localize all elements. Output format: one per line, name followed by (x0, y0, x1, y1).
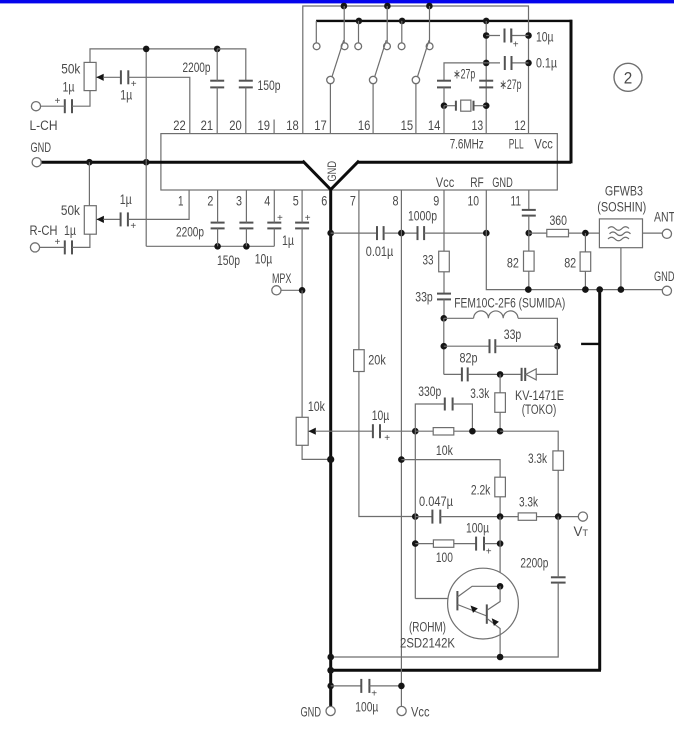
wire cap to R pot bottom (72, 234, 90, 247)
wire 3.3k to VT node (537, 516, 579, 518)
resistor 82 right (580, 252, 591, 271)
capacitor 10u wiper (373, 424, 380, 438)
junction dot MPX node (299, 287, 306, 294)
MPX terminal (272, 286, 281, 295)
wire pin5 to cap (301, 190, 303, 223)
wire collector rail down (499, 517, 501, 587)
capacitor 2200p output (551, 577, 566, 582)
svg-text:21: 21 (201, 118, 214, 133)
svg-text:+: + (130, 221, 136, 232)
GND terminal bottom (326, 706, 335, 715)
ANT terminal (662, 229, 671, 238)
junction dot pot bottom GND (327, 456, 334, 463)
svg-text:Vcc: Vcc (534, 137, 553, 152)
svg-text:9: 9 (433, 194, 439, 209)
junction dot 33p left (441, 343, 448, 350)
wire 2200p to pin21 (216, 87, 218, 133)
svg-text:0.01µ: 0.01µ (366, 244, 394, 259)
svg-text:50k: 50k (61, 61, 80, 76)
junction dot tank top (441, 315, 448, 322)
thick GND top bus (316, 20, 572, 22)
resistor 10k feedback (433, 428, 454, 435)
svg-text:+: + (486, 547, 492, 558)
switch S2 contact b stub (386, 6, 388, 43)
svg-text:20k: 20k (368, 353, 386, 368)
capacitor 0.1u decoupling (500, 56, 512, 70)
junction dot Vcc line sw3 (426, 3, 433, 10)
switch S3 pole (412, 76, 419, 83)
svg-text:RF: RF (470, 175, 484, 190)
wire MPX to node (281, 289, 302, 291)
filter GFWB3 body (599, 219, 642, 248)
capacitor 2200p pin2 (211, 223, 225, 229)
svg-text:7: 7 (350, 194, 356, 209)
svg-text:ANT: ANT (654, 210, 674, 225)
svg-text:7.6MHz: 7.6MHz (450, 137, 484, 152)
pin8 Vcc vertical full (400, 190, 402, 707)
potentiometer 50k R body (84, 206, 96, 235)
switch S1 contact b (341, 43, 348, 50)
svg-text:17: 17 (314, 118, 327, 133)
potentiometer 50k L body (84, 62, 96, 90)
switch S3 contact b (426, 43, 433, 50)
ground rail vertical x146 lower (145, 162, 147, 246)
crystal X1 leads (444, 105, 486, 107)
svg-text:0.047µ: 0.047µ (419, 494, 453, 509)
junction dot cap3 bottom (243, 243, 250, 250)
svg-text:3.3k: 3.3k (470, 386, 489, 401)
pin9 wire to 33 resistor (443, 190, 445, 251)
capacitor 82p (462, 367, 468, 381)
svg-text:50k: 50k (61, 203, 80, 218)
switch S2 contact a stub (358, 21, 360, 43)
R pot wiper arrow (96, 216, 104, 223)
switch S1 lever (332, 40, 344, 76)
switch S3 lever (418, 40, 430, 76)
svg-text:+: + (384, 433, 390, 444)
junction dot rail crystal (483, 102, 490, 109)
junction dot crystal left (441, 102, 448, 109)
wire R wiper to cap (103, 218, 120, 220)
wire MPX node down to 10k pot (301, 290, 303, 417)
wire 0.047u line left (415, 516, 432, 518)
capacitor 150p pin20 (239, 81, 253, 88)
junction dot pin11 rail (526, 230, 533, 237)
Q1 emitter lead (457, 605, 486, 617)
junction dot pin12 0.1u (525, 60, 532, 67)
potentiometer 10k body (296, 417, 308, 445)
Q2 base bar (486, 604, 488, 623)
capacitor 1u L wiper (121, 70, 128, 84)
resistor 3.3k emitter (518, 513, 536, 520)
switch S3 contact a stub (401, 21, 403, 43)
pin 19 stub (273, 120, 275, 134)
svg-text:L-CH: L-CH (30, 118, 58, 133)
junction dot cap2 bottom (214, 243, 221, 250)
junction dot emitter GND (327, 654, 334, 661)
svg-text:2200p: 2200p (176, 225, 204, 240)
svg-text:2200p: 2200p (183, 60, 211, 75)
varactor triangle (526, 369, 536, 380)
resistor 2.2k (495, 477, 506, 497)
junction dot rail x146 (143, 46, 150, 53)
blue top border bar (0, 0, 674, 3)
capacitor *27p right (479, 81, 493, 88)
pin11 wire to coupling cap (528, 190, 530, 210)
svg-text:+: + (513, 40, 519, 51)
junction dot 360 filter (582, 230, 589, 237)
junction dot collector rail 100u (497, 540, 504, 547)
wire 82L top (528, 233, 530, 251)
junction dot GND line filter (618, 286, 625, 293)
capacitor 10u decoupling (500, 29, 511, 43)
junction dot pin12 10u (525, 32, 532, 39)
svg-text:100: 100 (436, 550, 453, 565)
resistor 3.3k varactor bias (495, 393, 506, 413)
wire main rail pin6 to 0.01u (331, 232, 377, 234)
thick GND bottom bus (329, 669, 601, 672)
wire 82R bottom (584, 271, 586, 289)
svg-text:GND: GND (654, 269, 674, 284)
tank left rail (443, 318, 445, 374)
svg-text:3.3k: 3.3k (519, 495, 538, 510)
wire VT node to 2200p (557, 517, 559, 578)
svg-text:10µ: 10µ (255, 252, 273, 267)
capacitor 33p tank (490, 339, 496, 353)
wire S2 pole to pin16 (372, 84, 374, 134)
capacitor *27p left (437, 81, 451, 88)
wire 0.01u to 1000p (384, 232, 418, 234)
resistor 360 (547, 229, 569, 236)
capacitor 33p pin9 (437, 294, 451, 300)
svg-text:10: 10 (468, 194, 480, 209)
svg-text:8: 8 (393, 194, 399, 209)
svg-text:360: 360 (549, 213, 567, 228)
junction dot pin10 rail (483, 230, 490, 237)
svg-text:15: 15 (401, 118, 414, 133)
svg-text:GND: GND (492, 175, 513, 190)
svg-text:33p: 33p (415, 290, 433, 305)
junction dot rail 10u (483, 32, 490, 39)
svg-text:1µ: 1µ (64, 223, 76, 238)
svg-text:10k: 10k (308, 399, 325, 414)
junction dot pin6 rail (327, 230, 334, 237)
capacitor 100u bottom (361, 679, 369, 693)
svg-text:PLL: PLL (509, 137, 524, 152)
svg-text:GND: GND (301, 705, 322, 720)
wire pin8 node to 2.2k (401, 460, 500, 478)
wire 100u to collector rail (484, 543, 500, 545)
wire R-CH terminal to cap (40, 246, 65, 248)
svg-text:1000p: 1000p (408, 209, 437, 224)
svg-text:6: 6 (321, 194, 327, 209)
svg-text:GND: GND (31, 140, 52, 155)
GND terminal right (662, 286, 671, 295)
wire varactor to right rail (536, 346, 557, 374)
svg-text:19: 19 (258, 118, 271, 133)
switch S3 contact a (398, 43, 405, 50)
thick GND bus right section (358, 161, 571, 164)
junction dot thick bus sw2 (356, 18, 363, 25)
wire 100 to 100u (454, 543, 476, 545)
svg-text:∗27p: ∗27p (453, 67, 475, 82)
wire 82p to varactor node (468, 373, 522, 375)
svg-text:+: + (131, 79, 137, 90)
svg-text:0.1µ: 0.1µ (536, 56, 557, 71)
svg-text:1µ: 1µ (120, 192, 132, 207)
VT terminal (578, 512, 587, 521)
capacitor 2200p pin21 (210, 81, 224, 88)
svg-text:82: 82 (507, 255, 519, 270)
svg-text:(TOKO): (TOKO) (522, 402, 557, 417)
junction dot emitter node (497, 654, 504, 661)
wire L pot top to rail (90, 49, 146, 63)
wire filter bottom pin (620, 248, 622, 290)
wire S1 pole to pin17 (329, 84, 331, 134)
svg-text:1: 1 (178, 194, 184, 209)
wire 10u row (486, 35, 528, 37)
330p loop (415, 404, 445, 431)
wire 1000p to pin10 node (424, 232, 486, 234)
wire L wiper line to pin22 (103, 76, 121, 78)
capacitor 100u (476, 537, 484, 551)
switch S2 contact a (355, 43, 362, 50)
thick GND rail pin6 down (329, 188, 332, 707)
svg-text:KV-1471E: KV-1471E (515, 388, 564, 403)
capacitor 10u pin4 (267, 223, 281, 229)
junction dot thick bus sw3 (399, 18, 406, 25)
junction dot pin8 rail (398, 230, 405, 237)
IC U1 body (161, 134, 557, 190)
junction dot GND line 82R (582, 286, 589, 293)
junction dot 100 line left (412, 540, 419, 547)
svg-text:11: 11 (511, 194, 522, 209)
wire 150p to pin20 (245, 87, 247, 133)
junction dot pin8 2.2k (398, 456, 405, 463)
Q1 emitter arrow (471, 606, 478, 613)
wire 33p row left (444, 345, 490, 347)
svg-text:∗27p: ∗27p (500, 77, 522, 92)
capacitor 330p (445, 398, 453, 411)
resistor 33 (439, 251, 450, 272)
wire cap5 to MPX node (301, 228, 303, 290)
Q2 emitter arrow (492, 618, 499, 626)
wire wiper to 10u cap (315, 430, 373, 432)
top rail to 2200p (146, 48, 217, 50)
junction dot 100u Vcc (398, 683, 405, 690)
svg-text:3.3k: 3.3k (528, 451, 547, 466)
wire 20k down to 0.047u line (359, 372, 415, 517)
junction dot 33p right (554, 343, 561, 350)
wire L-CH terminal to cap (41, 105, 65, 107)
resistor 3.3k mid (553, 451, 564, 470)
capacitor 1000p (418, 226, 425, 240)
svg-text:MPX: MPX (272, 271, 292, 286)
wire 33p to tank node (443, 299, 445, 318)
wire base from rail (415, 598, 456, 600)
Vcc terminal bottom (397, 706, 406, 715)
svg-text:82: 82 (564, 255, 576, 270)
svg-text:+: + (371, 689, 377, 700)
junction dot thick bus crystal rail (483, 18, 490, 25)
wire varactor node to 3.3k (499, 374, 501, 392)
junction dot VT node (555, 513, 562, 520)
resistor 82 left (524, 251, 535, 271)
capacitor 1u R wiper (121, 212, 128, 226)
wire 2200p to emitter line (331, 583, 559, 657)
junction dot 2200p top (214, 46, 221, 53)
svg-text:(SOSHIN): (SOSHIN) (597, 200, 646, 215)
svg-text:330p: 330p (418, 384, 441, 399)
thick stub on right rail (581, 343, 600, 345)
svg-text:2: 2 (207, 194, 213, 209)
R-CH terminal (30, 243, 39, 252)
ground rail vertical x146 (145, 49, 147, 162)
svg-text:5: 5 (293, 194, 299, 209)
switch S2 pole (369, 76, 376, 83)
switch S1 contact b stub (343, 6, 345, 43)
svg-text:13: 13 (472, 118, 484, 133)
junction dot Vcc line sw2 (384, 3, 391, 10)
wire 33p row right (495, 345, 557, 347)
svg-text:+: + (55, 96, 61, 107)
junction dot 3.3k bottom (497, 428, 504, 435)
svg-text:GND: GND (327, 161, 339, 182)
svg-text:3: 3 (236, 194, 242, 209)
wire cap to pin 1 (128, 190, 189, 219)
svg-text:33p: 33p (504, 327, 522, 342)
wire line431 to 3.3k mid (500, 431, 558, 451)
transistor Q1 circle (448, 568, 519, 639)
wire 82R top (584, 233, 586, 252)
capacitor 1u L-CH input (65, 99, 72, 113)
wire left 27p branch top (444, 63, 486, 81)
circled 2 marker (614, 63, 642, 91)
capacitor 0.047u (432, 510, 440, 524)
capacitor 1u pin5 (295, 223, 309, 229)
svg-text:150p: 150p (217, 253, 240, 268)
filter waves (608, 227, 631, 241)
junction dot Vcc line sw1 (341, 3, 348, 10)
crystal X1 body (461, 100, 471, 111)
wire 3.3k mid to VT line (557, 470, 559, 516)
wire S3 pole to pin15 (415, 84, 417, 134)
GND return line right (528, 289, 662, 291)
GND funnel left diagonal (303, 161, 331, 190)
pin7 wire to 20k (358, 190, 360, 350)
svg-text:+: + (277, 213, 283, 224)
wire 10k to dots (454, 430, 500, 432)
wire cap to L pot bottom (72, 91, 90, 107)
junction dot GND line pin10 (525, 286, 532, 293)
wire 100u bottom row (331, 685, 362, 687)
wire tank node to inductor (444, 317, 474, 319)
svg-text:1µ: 1µ (63, 79, 75, 94)
svg-text:10µ: 10µ (536, 29, 554, 44)
Q1 collector lead (457, 586, 500, 597)
svg-text:33: 33 (423, 252, 434, 267)
Q2 collector lead (487, 586, 500, 610)
wire 27p left to crystal node (443, 87, 445, 105)
GND funnel right diagonal (331, 161, 359, 190)
switch S2 lever (375, 40, 387, 76)
svg-text:18: 18 (286, 118, 299, 133)
wire cap to pin 22 (128, 77, 190, 133)
junction dot 330p right (469, 428, 476, 435)
wire pin2 to cap (217, 190, 219, 223)
svg-text:+: + (305, 213, 311, 224)
thick GND right rail (598, 290, 601, 671)
svg-text:GFWB3: GFWB3 (605, 184, 643, 199)
junction dot GND bus x146 (143, 159, 150, 166)
junction dot 100u bottom left (327, 683, 334, 690)
Q1 base bar (456, 591, 458, 610)
svg-text:FEM10C-2F6 (SUMIDA): FEM10C-2F6 (SUMIDA) (454, 295, 565, 310)
GND terminal left (32, 158, 41, 167)
wire 82L bottom (528, 271, 530, 289)
tank right rail lower (556, 346, 558, 374)
ground rail corner to bottom caps (146, 245, 274, 247)
Vcc feed line pin18 up and across to pin12 (303, 6, 529, 134)
junction dot 0.047u left (412, 513, 419, 520)
junction dot rail 0.1u (483, 60, 490, 67)
resistor 20k (354, 350, 365, 372)
svg-text:(ROHM): (ROHM) (409, 620, 446, 635)
wire node to 360 (529, 232, 547, 234)
svg-text:150p: 150p (258, 78, 281, 93)
svg-text:2: 2 (624, 70, 633, 88)
svg-text:R-CH: R-CH (30, 223, 58, 238)
wire R pot top to GND dot (88, 162, 90, 206)
wire cap3 to rail (245, 228, 247, 246)
switch S2 contact b (384, 43, 391, 50)
L-CH terminal (31, 102, 40, 111)
switch S1 contact a (313, 43, 320, 50)
wire 0.047u to node (440, 516, 518, 518)
junction dot feedback left (412, 428, 419, 435)
svg-text:10k: 10k (436, 443, 453, 458)
junction dot 2.2k bottom (497, 513, 504, 520)
wire cap4 to rail (273, 228, 275, 246)
wire 100u to Vcc rail (369, 685, 401, 687)
wire inductor to right rail (518, 318, 557, 346)
wire pin3 to cap (245, 190, 247, 223)
junction dot collector node (497, 583, 504, 590)
wire 2200p top (216, 49, 218, 81)
wire 82p row left (444, 373, 462, 375)
wire 3.3k to line431 (499, 412, 501, 431)
svg-text:22: 22 (173, 118, 186, 133)
svg-text:2200p: 2200p (520, 556, 548, 571)
wire filter to ANT (643, 232, 663, 234)
wire cap2 to rail (217, 228, 219, 246)
junction dot varactor node (497, 371, 504, 378)
varactor KV-1471E cathode bars (522, 368, 526, 381)
svg-text:Vcc: Vcc (411, 705, 430, 720)
crystal rail from thick bus to pin13 (485, 21, 487, 134)
switch S1 pole (327, 76, 334, 83)
thick GND riser right (570, 20, 573, 164)
L pot wiper arrow (96, 74, 104, 81)
svg-text:100µ: 100µ (466, 521, 489, 536)
junction dot GND bus x89 (86, 159, 93, 166)
svg-text:+: + (55, 237, 61, 248)
wire 100 line (415, 543, 433, 545)
inductor FEM10C-2F6 (474, 311, 518, 318)
svg-text:20: 20 (229, 118, 242, 133)
wire 10u to node (380, 430, 415, 432)
switch S1 contact a stub (315, 21, 317, 43)
